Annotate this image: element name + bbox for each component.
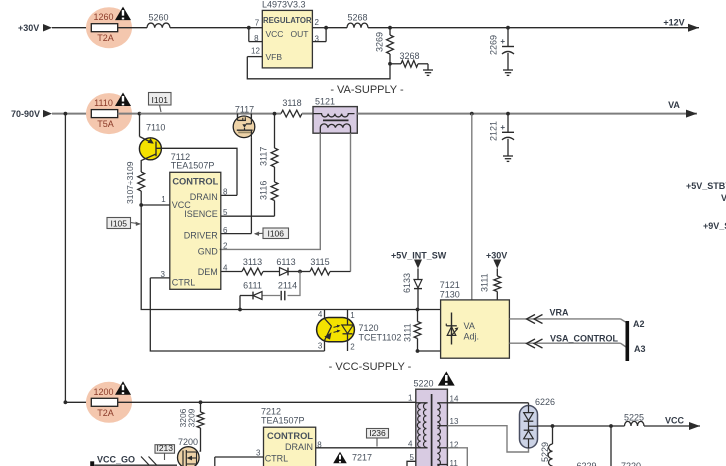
svg-text:Adj.: Adj. bbox=[464, 332, 480, 342]
resistor 3116 bbox=[259, 181, 278, 217]
svg-text:6229: 6229 bbox=[577, 461, 597, 466]
pin 3 U4 CTRL bbox=[215, 448, 264, 466]
wire down to ctrl lower rail bbox=[141, 205, 240, 310]
svg-text:1: 1 bbox=[408, 394, 413, 403]
svg-text:2114: 2114 bbox=[278, 280, 297, 290]
wire VFB feedback bbox=[247, 57, 390, 79]
connector bar A2 A3 bbox=[626, 321, 630, 361]
svg-text:+30V: +30V bbox=[18, 23, 39, 33]
svg-text:- VA-SUPPLY -: - VA-SUPPLY - bbox=[330, 84, 404, 96]
node 3269 tap bbox=[388, 26, 392, 30]
svg-text:T2A: T2A bbox=[97, 408, 114, 418]
svg-text:1200: 1200 bbox=[93, 387, 113, 397]
svg-text:3111: 3111 bbox=[403, 323, 413, 342]
label I213 bbox=[155, 443, 175, 460]
node VCC supply branch bbox=[64, 400, 68, 404]
svg-text:+9V_S: +9V_S bbox=[703, 221, 726, 231]
svg-text:GND: GND bbox=[198, 247, 219, 257]
svg-text:+12V: +12V bbox=[663, 17, 684, 27]
pin 14 5220 bbox=[447, 395, 528, 407]
resistor 3113 bbox=[242, 257, 279, 275]
svg-text:2: 2 bbox=[350, 342, 355, 351]
label I101 bbox=[149, 93, 172, 113]
node pin2 junction bbox=[324, 26, 328, 30]
pin 2 U1 bbox=[312, 18, 326, 28]
wire VCC rail to transformer 5220 bbox=[118, 401, 416, 403]
resistor 3206-3209 bbox=[178, 402, 204, 451]
warning 5220 bbox=[438, 371, 455, 385]
svg-text:5: 5 bbox=[223, 208, 228, 217]
svg-text:7217: 7217 bbox=[352, 453, 372, 463]
label +30V secondary bbox=[486, 250, 507, 268]
svg-text:VA: VA bbox=[668, 100, 680, 110]
node 6133 junction bbox=[416, 308, 420, 312]
svg-text:+5V_STBY: +5V_STBY bbox=[686, 181, 726, 191]
svg-text:4: 4 bbox=[318, 310, 323, 319]
svg-text:7117: 7117 bbox=[235, 104, 254, 114]
pin 3 opto bbox=[318, 341, 325, 352]
fuse 1260 T2A bbox=[86, 7, 132, 48]
op-amp U2 control TEA1507P 7112 bbox=[170, 152, 221, 289]
wire 7110 base to drain node bbox=[156, 148, 237, 195]
svg-text:7130: 7130 bbox=[440, 289, 460, 299]
wire to VCC output bbox=[644, 425, 700, 427]
wire 5121 secondary left to GND pin bbox=[220, 133, 320, 249]
pin 8 U1 bbox=[249, 28, 262, 43]
wire fuse 1110 to 7110 node bbox=[118, 113, 140, 115]
svg-text:3117: 3117 bbox=[259, 147, 269, 166]
svg-text:2: 2 bbox=[315, 18, 320, 27]
resistor 3111a bbox=[403, 310, 421, 352]
svg-text:ISENCE: ISENCE bbox=[184, 209, 218, 219]
svg-text:T2A: T2A bbox=[97, 33, 114, 43]
wire 7117 source to DRIVER bbox=[250, 137, 252, 233]
inductor 5268 bbox=[347, 13, 368, 28]
wire 5260 to U1 pin7 bbox=[170, 27, 249, 29]
pin 6 U2 DRIVER bbox=[221, 226, 252, 235]
node 2121 tap bbox=[506, 112, 510, 116]
node +12V output bbox=[663, 17, 699, 31]
node VCC pin tie bbox=[139, 203, 143, 207]
capacitor 2114 bbox=[263, 280, 298, 300]
svg-text:TEA1507P: TEA1507P bbox=[261, 416, 305, 426]
node 3269/3268 junction bbox=[388, 62, 392, 66]
node VCC output bbox=[665, 416, 700, 431]
svg-text:5229: 5229 bbox=[540, 442, 550, 462]
svg-text:7200: 7200 bbox=[178, 437, 198, 447]
svg-text:- VCC-SUPPLY -: - VCC-SUPPLY - bbox=[329, 361, 412, 373]
wire +30V rail to fuse bbox=[52, 27, 91, 29]
wire ctrl lower rail W2 to VA adj bbox=[418, 350, 441, 352]
svg-text:13: 13 bbox=[450, 417, 459, 426]
svg-text:+30V: +30V bbox=[486, 250, 507, 260]
wire 70-90V to fuse 1110 bbox=[52, 113, 91, 115]
ground 3268 bbox=[423, 70, 433, 75]
pin 8 U4 DRAIN bbox=[316, 440, 335, 449]
node ctrl rail junction bbox=[238, 308, 242, 312]
inductor 5225 bbox=[611, 413, 644, 427]
svg-text:REGULATOR: REGULATOR bbox=[263, 16, 312, 25]
pin 2 opto bbox=[348, 341, 356, 351]
svg-text:VCC: VCC bbox=[665, 416, 685, 426]
node branch to VCC supply bbox=[64, 112, 68, 116]
op-amp U3 VA Adj 7121 7130 bbox=[440, 280, 510, 358]
pin 5 U2 ISENCE bbox=[221, 208, 275, 217]
wire down to 7220 bbox=[610, 426, 612, 466]
svg-text:3: 3 bbox=[318, 342, 323, 351]
opto-coupler 7120 TCET1102 bbox=[317, 318, 402, 343]
svg-text:I106: I106 bbox=[267, 228, 284, 238]
warning 7217 bbox=[333, 452, 372, 463]
pin 13 5220 bbox=[447, 417, 528, 452]
diode 6113 bbox=[276, 257, 300, 275]
capacitor 2269 bbox=[489, 28, 515, 70]
svg-text:+: + bbox=[500, 37, 505, 46]
svg-text:6133: 6133 bbox=[402, 273, 412, 293]
wire 6111 to ctrl rail bbox=[239, 296, 241, 310]
pin 1 U2 VCC bbox=[141, 195, 170, 205]
label +5V_INT_SW bbox=[391, 250, 447, 268]
svg-text:3113: 3113 bbox=[243, 257, 262, 267]
svg-text:A3: A3 bbox=[634, 344, 646, 354]
node 5229 tap bbox=[551, 424, 555, 428]
svg-text:A2: A2 bbox=[633, 319, 645, 329]
svg-text:5121: 5121 bbox=[315, 96, 335, 106]
svg-text:3269: 3269 bbox=[375, 32, 385, 52]
node 3117 tap bbox=[273, 112, 277, 116]
svg-text:T5A: T5A bbox=[97, 119, 114, 129]
wire DEM lower branch bbox=[288, 272, 301, 296]
svg-text:1: 1 bbox=[161, 195, 166, 204]
svg-text:3118: 3118 bbox=[282, 98, 301, 108]
pin 1 opto bbox=[348, 310, 356, 320]
svg-text:12: 12 bbox=[251, 47, 260, 56]
svg-text:VA: VA bbox=[464, 321, 475, 331]
diode 6133 bbox=[402, 269, 422, 310]
wire U1 out to inductor 5268 bbox=[326, 27, 347, 29]
svg-text:VCC_GO: VCC_GO bbox=[97, 455, 135, 465]
resistor 3115 bbox=[300, 257, 351, 275]
svg-text:6113: 6113 bbox=[276, 257, 295, 267]
wire +12V rail bbox=[368, 27, 699, 29]
svg-text:CTRL: CTRL bbox=[265, 453, 289, 463]
svg-text:11: 11 bbox=[450, 459, 459, 466]
svg-text:5220: 5220 bbox=[414, 379, 434, 389]
svg-text:CTRL: CTRL bbox=[172, 277, 196, 287]
svg-text:DRAIN: DRAIN bbox=[190, 192, 218, 202]
pin 3 U2 CTRL bbox=[150, 270, 170, 279]
pin 4 opto bbox=[318, 310, 325, 320]
transistor 7117 mosfet bbox=[233, 104, 255, 137]
transformer 5220 bbox=[414, 379, 448, 466]
svg-text:I105: I105 bbox=[110, 218, 127, 228]
label I106 bbox=[254, 228, 289, 239]
op-amp U4 control TEA1507P 7212 bbox=[261, 407, 316, 466]
svg-text:I213: I213 bbox=[156, 443, 173, 453]
svg-text:2269: 2269 bbox=[489, 35, 499, 55]
pin 12 U1 VFB bbox=[247, 47, 262, 57]
transistor 7200 mosfet bbox=[178, 437, 200, 466]
node 3206 tap bbox=[199, 400, 203, 404]
svg-text:5268: 5268 bbox=[347, 13, 367, 23]
svg-text:3: 3 bbox=[256, 448, 261, 457]
pin 3 U1 bbox=[312, 28, 326, 44]
diode 6111 bbox=[240, 280, 262, 299]
svg-text:1: 1 bbox=[350, 311, 355, 320]
svg-text:2121: 2121 bbox=[489, 121, 499, 141]
svg-text:DRAIN: DRAIN bbox=[285, 442, 313, 452]
transformer 5121 bbox=[313, 96, 357, 133]
node 7220 tap bbox=[609, 424, 613, 428]
resistor 3118 bbox=[281, 98, 302, 117]
fuse 1200 T2A bbox=[86, 382, 132, 423]
svg-text:VSA_CONTROL: VSA_CONTROL bbox=[550, 334, 619, 344]
svg-text:7220: 7220 bbox=[621, 461, 641, 466]
node 2269 tap bbox=[506, 26, 510, 30]
resistor 3117 bbox=[259, 114, 278, 182]
pin 12 5220 bbox=[447, 440, 467, 466]
wire 70-90V down to VCC-supply fuse bbox=[64, 114, 66, 403]
label I105 bbox=[107, 218, 141, 229]
svg-text:3209: 3209 bbox=[187, 408, 197, 427]
svg-text:3107÷3109: 3107÷3109 bbox=[125, 161, 135, 204]
svg-text:CONTROL: CONTROL bbox=[267, 431, 313, 441]
wire VA rail to output bbox=[357, 113, 697, 115]
svg-text:L4973V3.3: L4973V3.3 bbox=[262, 0, 306, 9]
svg-text:3115: 3115 bbox=[310, 257, 329, 267]
svg-text:OUT: OUT bbox=[291, 29, 309, 39]
svg-text:VFB: VFB bbox=[266, 52, 283, 62]
svg-text:+5V_INT_SW: +5V_INT_SW bbox=[391, 250, 447, 260]
svg-text:1260: 1260 bbox=[93, 12, 113, 22]
resistor 3111b bbox=[480, 269, 501, 300]
transistor Q 7110 bbox=[139, 114, 165, 172]
diode pack 6226 bbox=[520, 397, 556, 448]
svg-text:CONTROL: CONTROL bbox=[172, 177, 218, 187]
svg-text:70-90V: 70-90V bbox=[11, 109, 40, 119]
pin 7 U1 bbox=[249, 18, 262, 27]
svg-text:I236: I236 bbox=[369, 428, 386, 438]
node 3111 lower junction bbox=[416, 349, 420, 353]
wire drain to transformer 5220 pin4 bbox=[335, 447, 416, 449]
svg-text:3116: 3116 bbox=[259, 181, 269, 200]
node VCC_GO bbox=[90, 455, 177, 466]
resistor 3268 bbox=[390, 51, 428, 70]
node DEM junction bbox=[298, 270, 302, 274]
pin 5 5220 bbox=[407, 453, 416, 466]
label I236 bbox=[367, 428, 389, 447]
svg-text:6111: 6111 bbox=[243, 280, 262, 290]
resistor 3107-3109 bbox=[125, 161, 145, 205]
ground 2269 bbox=[503, 70, 513, 75]
svg-text:1110: 1110 bbox=[94, 98, 113, 108]
svg-text:VCC: VCC bbox=[266, 29, 284, 39]
ground 2121 bbox=[503, 156, 513, 161]
wire 5121 secondary right to DEM chain bbox=[350, 133, 352, 271]
svg-text:I101: I101 bbox=[151, 95, 168, 105]
pin 2 U2 GND bbox=[220, 241, 228, 250]
wire VRA bbox=[509, 308, 626, 324]
svg-text:4: 4 bbox=[408, 440, 413, 449]
wire VA rail to VA adj block bbox=[471, 114, 473, 300]
svg-text:TCET1102: TCET1102 bbox=[359, 333, 402, 343]
wire to fuse 1200 bbox=[65, 401, 91, 403]
svg-text:5260: 5260 bbox=[148, 13, 168, 23]
inductor 5260 bbox=[147, 13, 170, 28]
op-amp U1 regulator L4973V3.3 bbox=[262, 0, 312, 68]
svg-text:V: V bbox=[721, 193, 726, 203]
node pin7 junction bbox=[247, 26, 251, 30]
svg-text:DRIVER: DRIVER bbox=[184, 231, 219, 241]
svg-text:DEM: DEM bbox=[198, 267, 218, 277]
pin 4 U2 DEM bbox=[221, 263, 242, 272]
inductor 5229 bbox=[540, 426, 553, 466]
svg-text:VRA: VRA bbox=[550, 308, 570, 318]
wire fuse 1260 to inductor 5260 bbox=[118, 27, 147, 29]
wire 3118 to transformer bbox=[302, 113, 313, 115]
node VA output bbox=[668, 100, 697, 118]
svg-text:TEA1507P: TEA1507P bbox=[171, 161, 215, 171]
wire VA rail segment bbox=[140, 113, 282, 115]
node 7110 tap bbox=[138, 112, 142, 116]
node VA adj tap bbox=[470, 112, 474, 116]
resistor 3269 bbox=[375, 28, 394, 64]
svg-text:7120: 7120 bbox=[359, 323, 379, 333]
fuse 1110 T5A bbox=[86, 93, 132, 134]
svg-text:7: 7 bbox=[255, 18, 260, 27]
capacitor 2121 bbox=[489, 114, 515, 156]
svg-text:2: 2 bbox=[223, 241, 228, 250]
svg-text:7110: 7110 bbox=[146, 123, 165, 133]
svg-text:3111: 3111 bbox=[480, 273, 490, 292]
wire rectifier output bbox=[538, 425, 612, 427]
pin 8 U2 DRAIN bbox=[221, 187, 237, 196]
svg-text:6226: 6226 bbox=[535, 397, 555, 407]
svg-text:+: + bbox=[500, 123, 505, 132]
wire CTRL to opto LED bbox=[150, 278, 324, 351]
wire VSA_CONTROL bbox=[509, 334, 626, 348]
wire ctrl upper rail W1 bbox=[240, 309, 441, 311]
